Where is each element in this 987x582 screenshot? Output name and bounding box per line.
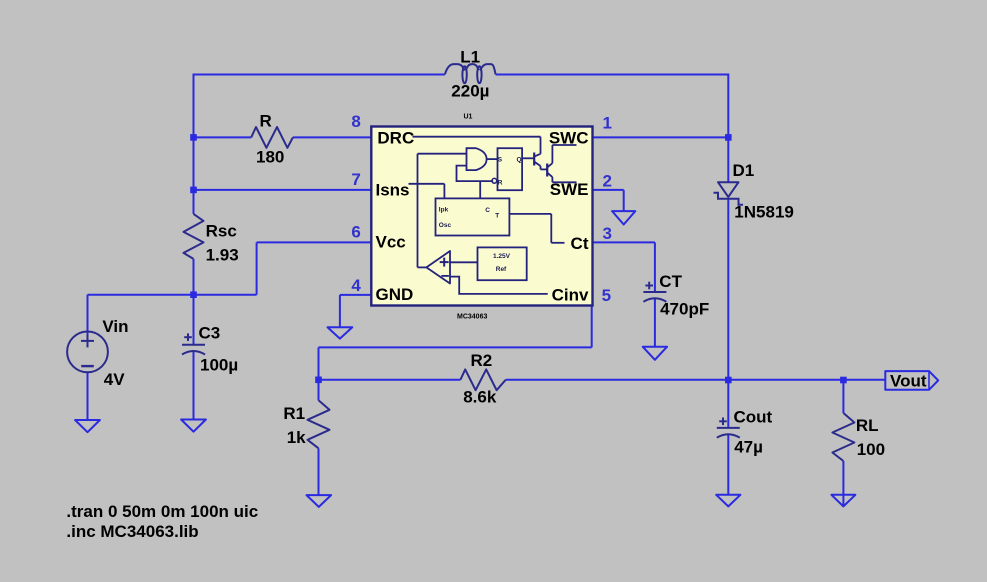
U1 internal Cinv line: [450, 277, 548, 294]
wire pin8 row R to IC (pin 8 DRC): [293, 136, 371, 138]
U1 internal Ct line: [509, 214, 564, 243]
ground C3: [181, 420, 206, 432]
svg-text:D1: D1: [733, 161, 755, 180]
svg-text:4V: 4V: [104, 370, 125, 389]
pin GND name: [376, 285, 414, 304]
svg-text:Vcc: Vcc: [376, 233, 406, 252]
wire D1 cathode to output rail: [727, 199, 729, 380]
wire RL bottom to ground: [842, 461, 844, 506]
label U1 reference: [464, 114, 473, 121]
U1 internal latch Q to driver base: [522, 157, 534, 159]
svg-text:Ref: Ref: [496, 266, 507, 273]
U1 internal DRC line to driver collector: [413, 137, 541, 154]
wire pin2 SWE stub: [593, 190, 624, 211]
wire pin6 Vcc riser: [257, 242, 372, 294]
wire left rail segment pin7 row to Rsc top: [193, 190, 195, 214]
junction node pin7 row / left rail: [190, 187, 197, 194]
label R value 180: [256, 147, 284, 166]
pin number 5: [602, 286, 611, 305]
svg-text:.tran 0 50m 0m 100n uic: .tran 0 50m 0m 100n uic: [66, 502, 258, 521]
text spice directive .tran: [66, 502, 258, 521]
wire lower-left rail (Vin node): [88, 294, 257, 296]
svg-text:4: 4: [351, 276, 361, 295]
svg-text:R: R: [260, 111, 272, 130]
ground Cout: [716, 495, 740, 507]
svg-text:Ipk: Ipk: [439, 206, 449, 213]
svg-text:3: 3: [603, 224, 612, 243]
resistor RL: [832, 413, 854, 461]
label R name: [260, 111, 272, 130]
diode D1: [714, 182, 744, 205]
U1 internal latch: [492, 148, 522, 190]
svg-text:8: 8: [351, 112, 360, 131]
svg-text:220µ: 220µ: [451, 81, 489, 100]
svg-text:5: 5: [602, 286, 611, 305]
svg-text:.inc MC34063.lib: .inc MC34063.lib: [66, 522, 198, 541]
label D1 name: [733, 161, 755, 180]
wire pin7 Isns row: [194, 189, 372, 191]
resistor R: [251, 127, 293, 148]
svg-text:1k: 1k: [287, 428, 306, 447]
junction node SWC / diode column: [725, 134, 732, 141]
svg-text:DRC: DRC: [377, 129, 414, 148]
junction node pin8 row / left rail: [190, 134, 197, 141]
svg-text:1N5819: 1N5819: [734, 202, 794, 221]
wire Vin top: [87, 295, 89, 345]
pin number 4: [351, 276, 361, 295]
pin DRC name: [377, 129, 414, 148]
svg-text:S: S: [498, 157, 503, 164]
svg-text:Isns: Isns: [376, 181, 410, 200]
svg-text:6: 6: [351, 223, 360, 242]
junction node feedback / R1 / R2: [315, 377, 322, 384]
ground Vin: [75, 420, 100, 432]
label D1 value 1N5819: [734, 202, 794, 221]
wire C3 bottom to ground: [193, 351, 195, 420]
junction node output rail / RL: [840, 377, 847, 384]
wire pin1 SWC row: [593, 136, 729, 138]
wire C3 top: [193, 295, 195, 345]
U1 internal AND gate: [418, 148, 498, 170]
wire top rail right (L1 to diode column): [496, 74, 729, 138]
svg-text:R1: R1: [283, 404, 305, 423]
pin Vcc name: [376, 233, 406, 252]
svg-text:Q: Q: [516, 157, 521, 164]
ground CT: [643, 347, 667, 360]
U1 internal Isns line: [409, 184, 445, 199]
capacitor Cout: [717, 418, 740, 438]
capacitor CT: [643, 282, 666, 302]
resistor R2: [460, 369, 505, 390]
wire output rail R2 to Vout flag: [506, 379, 886, 381]
svg-text:Vout: Vout: [890, 372, 927, 391]
label C3 name: [199, 323, 221, 342]
pin number 8: [351, 112, 360, 131]
svg-text:R2: R2: [471, 351, 493, 370]
junction node lower-left rail / C3: [190, 291, 197, 298]
label C3 value 100u: [200, 355, 238, 374]
label L1 name: [460, 47, 480, 66]
text spice directive .inc: [66, 522, 198, 541]
wire Cout top: [727, 380, 729, 428]
label L1 value 220u: [451, 81, 489, 100]
svg-text:100: 100: [857, 440, 885, 459]
wire output rail left of R2: [319, 379, 461, 381]
svg-text:7: 7: [351, 170, 360, 189]
wire CT bottom to ground: [654, 299, 656, 347]
pin number 3: [603, 224, 612, 243]
label U1 part MC34063: [457, 313, 487, 320]
ground RL: [831, 495, 855, 507]
voltage source Vin: [67, 332, 108, 373]
wire Vin bottom to ground: [87, 372, 89, 420]
svg-text:47µ: 47µ: [734, 437, 763, 456]
pin SWC name: [549, 128, 589, 147]
transistor Q1 driver: [534, 153, 547, 170]
pin number 2: [603, 171, 612, 190]
inductor L1: [445, 64, 496, 83]
label CT name: [659, 272, 682, 291]
pin number 6: [351, 223, 360, 242]
svg-text:L1: L1: [460, 47, 480, 66]
svg-text:C3: C3: [199, 323, 221, 342]
wire D1 anode column: [727, 137, 729, 182]
svg-text:C: C: [485, 207, 490, 214]
U1 internal comparator: [418, 154, 451, 284]
transistor Q2 output: [547, 145, 576, 182]
pin SWE name: [550, 180, 589, 199]
pin Ct name: [571, 234, 589, 253]
wire RL top: [842, 380, 844, 413]
svg-text:Cout: Cout: [734, 407, 773, 426]
wire pin4 GND stub: [340, 295, 371, 327]
label Vin name: [102, 317, 128, 336]
label R1 name: [283, 404, 305, 423]
svg-text:Cinv: Cinv: [552, 285, 589, 304]
resistor R1: [308, 400, 330, 448]
U1 internal reference box: [450, 247, 527, 280]
junction node output rail / Cout: [725, 377, 732, 384]
svg-text:1.93: 1.93: [206, 245, 239, 264]
label R2 name: [471, 351, 493, 370]
wire Cout bottom to ground: [727, 435, 729, 495]
svg-text:Rsc: Rsc: [206, 221, 237, 240]
wire left rail segment pin8 row to pin7 row: [193, 137, 195, 190]
pin Cinv name: [552, 285, 589, 304]
svg-text:470pF: 470pF: [660, 299, 709, 318]
ground pin4 GND: [328, 327, 353, 338]
svg-text:1.25V: 1.25V: [493, 253, 511, 260]
U1 internal AND lower input / latch R net: [457, 166, 494, 199]
wire feedback horizontal: [319, 347, 592, 379]
wire top rail left (node N001 to L1): [193, 75, 445, 138]
wire Rsc bottom to lower-left rail: [193, 259, 195, 295]
svg-text:GND: GND: [376, 285, 414, 304]
svg-text:180: 180: [256, 147, 284, 166]
capacitor C3: [182, 333, 205, 354]
svg-text:T: T: [495, 213, 499, 220]
svg-text:2: 2: [603, 171, 612, 190]
label Vin value 4V: [104, 370, 125, 389]
svg-text:RL: RL: [856, 416, 879, 435]
U1 internal oscillator box: [436, 198, 510, 235]
wire pin3 Ct row to CT cap: [593, 242, 655, 292]
svg-text:MC34063: MC34063: [457, 313, 487, 320]
label R1 value 1k: [287, 428, 306, 447]
label Cout name: [734, 407, 773, 426]
ground SWE pin2: [612, 211, 635, 224]
label CT value 470pF: [660, 299, 709, 318]
label Rsc name: [206, 221, 237, 240]
ground R1: [307, 495, 332, 507]
label RL value 100: [857, 440, 885, 459]
pin number 7: [351, 170, 360, 189]
svg-text:100µ: 100µ: [200, 355, 238, 374]
svg-text:Vin: Vin: [102, 317, 128, 336]
wire R1 top: [318, 380, 320, 401]
pin number 1: [603, 114, 612, 133]
wire pin5 Cinv feedback down IC edge: [591, 295, 593, 347]
svg-text:CT: CT: [659, 272, 682, 291]
svg-text:R: R: [498, 179, 503, 186]
op-amp U1 MC34063 body: [371, 127, 592, 306]
svg-text:U1: U1: [464, 114, 473, 121]
svg-text:Osc: Osc: [439, 222, 452, 229]
label Rsc value 1.93: [206, 245, 239, 264]
svg-text:Ct: Ct: [571, 234, 589, 253]
label RL name: [856, 416, 879, 435]
svg-text:1: 1: [603, 114, 612, 133]
svg-text:8.6k: 8.6k: [463, 387, 497, 406]
pin Isns name: [376, 181, 410, 200]
label R2 value 8.6k: [463, 387, 497, 406]
label Cout value 47u: [734, 437, 763, 456]
wire R1 bottom to ground: [318, 448, 320, 495]
wire pin8 row left of R: [194, 136, 252, 138]
node Vout output flag: [885, 371, 938, 390]
resistor Rsc: [184, 214, 204, 259]
